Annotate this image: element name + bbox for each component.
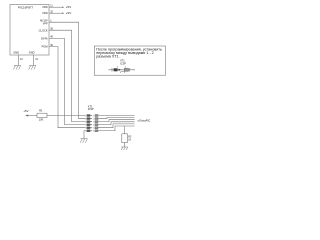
wire out row5 [98,124,135,128]
pin 11 VDD stub [49,6,62,8]
svg-text:PIC16F877: PIC16F877 [18,6,34,10]
inset tick right [129,68,131,72]
svg-text:4: 4 [93,124,94,126]
ground at pin 31 [29,66,36,70]
svg-text:VPP: VPP [43,23,48,26]
XT1 row1 contact [87,115,90,117]
inset tick left [111,68,113,72]
svg-text:4: 4 [85,124,86,126]
svg-text:ICSP: ICSP [88,108,94,111]
wire out row2 [98,117,135,120]
output wires to programmer [98,116,135,131]
XT1 row6 contact [87,130,90,132]
+5V arrow pin11 [62,6,64,8]
wire DATA pin40 [49,38,85,124]
wire out row3 [98,120,135,122]
wire out row4 [98,122,135,125]
svg-text:1K: 1K [128,138,131,141]
inset contact pin arrow [119,69,121,71]
XT1 row5 contact [87,127,90,129]
inset contact male box [124,68,128,71]
wire PGM pin36 [49,47,85,128]
svg-text:31: 31 [35,58,38,61]
svg-text:GND: GND [13,51,19,55]
svg-text:+5V: +5V [66,11,71,15]
pin 32 VDD stub [49,12,62,14]
XT1 row4 contact [87,124,90,126]
svg-text:12: 12 [20,58,23,61]
svg-text:2: 2 [93,118,94,120]
svg-text:CLOCK: CLOCK [39,28,48,32]
pin 31 GND stub [33,55,35,66]
svg-text:3: 3 [85,121,86,123]
+5V arrow at R1 [25,115,28,117]
svg-text:+5V: +5V [66,5,71,9]
pin 12 GND stub [17,55,19,66]
svg-text:10K: 10K [39,118,44,122]
inset contact female [114,68,118,71]
wire +5V to R1 [28,115,37,117]
svg-text:DATA: DATA [41,37,48,41]
inset jumper wire [108,69,135,71]
svg-text:R1: R1 [39,109,43,113]
resistor R1 body [37,113,47,117]
svg-text:+5V: +5V [23,109,28,113]
XT1 row2 contact [87,118,90,120]
ground at pin 12 [13,66,20,70]
resistor R2 body [122,134,128,143]
svg-text:PGM: PGM [42,45,48,49]
svg-text:5: 5 [93,128,94,130]
svg-text:к ExtraPIC: к ExtraPIC [138,118,151,122]
svg-text:1: 1 [85,115,86,117]
svg-text:разъема XT1.: разъема XT1. [96,54,119,58]
inset jumper bracket [121,72,125,73]
wire MCLR pin1 to node [49,22,85,118]
svg-text:6: 6 [85,131,86,133]
svg-text:5: 5 [85,128,86,130]
XT1 row3 contact [87,121,90,123]
svg-text:1: 1 [93,115,94,117]
ground at XT1 pin6 [80,139,87,143]
wire R2 to ground [124,143,126,147]
note box [94,46,165,75]
svg-text:6: 6 [93,131,94,133]
svg-text:3: 3 [93,121,94,123]
wire R1 to XT1 pin1 [47,115,85,117]
wire XT1 pin6 to ground [84,131,85,139]
wire out row1 [98,115,135,117]
IC U1 PIC16F877 body [10,5,49,56]
svg-text:ICSP: ICSP [120,63,126,66]
wire R2 top [124,126,126,134]
XT1 pin numbers left column [85,115,94,132]
ground at R2 [121,147,128,150]
svg-text:VDD: VDD [42,5,48,9]
+5V arrow pin32 [62,12,64,14]
XT1 contacts rows [87,115,98,132]
wire CLOCK pin39 [49,30,85,121]
svg-text:2: 2 [85,118,86,120]
svg-text:VDD: VDD [42,11,48,15]
wire out row6 [98,126,135,131]
svg-text:GND: GND [29,51,35,55]
